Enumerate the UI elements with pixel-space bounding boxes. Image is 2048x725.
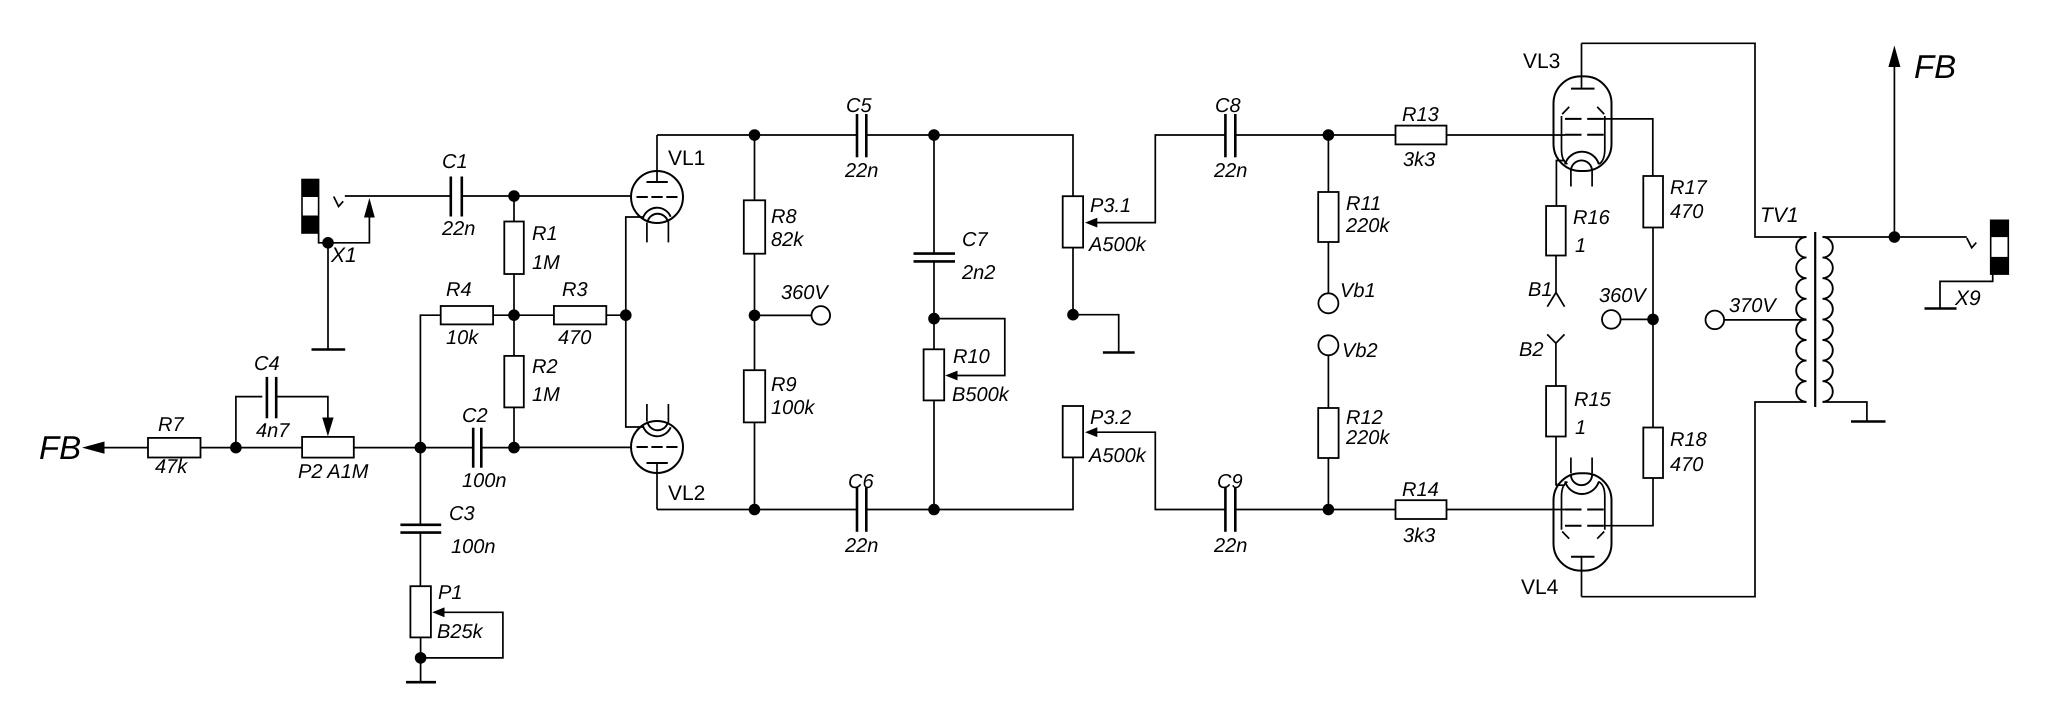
svg-text:VL2: VL2 xyxy=(668,482,705,505)
node 370V xyxy=(1706,295,1807,329)
svg-text:B25k: B25k xyxy=(437,621,484,643)
svg-text:R15: R15 xyxy=(1574,389,1612,411)
svg-text:1: 1 xyxy=(1575,417,1586,439)
capacitor C8 22n xyxy=(1213,95,1247,182)
junction node R1/top xyxy=(508,190,520,202)
capacitor C1 22n xyxy=(441,151,475,240)
svg-text:360V: 360V xyxy=(1599,285,1647,307)
junction dot P1 bottom xyxy=(415,652,427,664)
svg-text:C6: C6 xyxy=(848,471,874,493)
svg-text:R4: R4 xyxy=(446,279,472,301)
svg-text:1M: 1M xyxy=(532,252,560,274)
junction dot R11 top xyxy=(1323,129,1335,141)
resistor R11 220k xyxy=(1318,135,1390,293)
wire bottom rail right xyxy=(867,457,1073,509)
junction dot R12 bottom xyxy=(1323,504,1335,516)
resistor R13 3k3 xyxy=(1396,104,1566,171)
junction dot R10 bottom xyxy=(928,504,940,516)
tetrode VL3 xyxy=(1523,43,1612,206)
resistor R16 1 xyxy=(1546,206,1610,293)
svg-text:1M: 1M xyxy=(532,384,560,406)
svg-text:P1: P1 xyxy=(438,582,462,604)
wire VL3 anode to transformer xyxy=(1582,43,1807,237)
wire bottom rail left xyxy=(657,509,856,511)
capacitor C7 2n2 xyxy=(914,135,996,319)
svg-text:10k: 10k xyxy=(446,327,479,349)
wire VL4 anode to transformer xyxy=(1582,402,1807,597)
svg-text:P3.2: P3.2 xyxy=(1090,407,1131,429)
svg-text:370V: 370V xyxy=(1729,295,1777,317)
svg-text:B500k: B500k xyxy=(952,384,1010,406)
resistor R9 100k xyxy=(744,315,816,509)
svg-text:22n: 22n xyxy=(1213,160,1247,182)
wire C8 to R13 xyxy=(1236,134,1396,136)
resistor R14 3k3 xyxy=(1396,479,1566,547)
svg-text:B1: B1 xyxy=(1528,279,1552,301)
capacitor C5 22n xyxy=(844,95,878,182)
svg-text:R17: R17 xyxy=(1670,177,1708,199)
junction dot P3 center xyxy=(1067,309,1079,321)
svg-text:C9: C9 xyxy=(1217,471,1243,493)
node 360V right xyxy=(1599,285,1653,329)
svg-text:82k: 82k xyxy=(771,229,804,251)
svg-text:100k: 100k xyxy=(771,397,815,419)
svg-text:X1: X1 xyxy=(330,244,357,267)
resistor R2 1M xyxy=(504,315,560,447)
svg-text:360V: 360V xyxy=(781,282,829,304)
svg-text:1: 1 xyxy=(1575,235,1586,257)
triode VL2 xyxy=(626,315,706,509)
svg-text:R3: R3 xyxy=(562,279,588,301)
svg-text:C7: C7 xyxy=(962,229,988,251)
svg-text:Vb1: Vb1 xyxy=(1340,280,1376,302)
resistor R1 1M xyxy=(504,196,560,315)
connector X1 xyxy=(302,180,375,268)
svg-text:P2 A1M: P2 A1M xyxy=(298,461,369,483)
junction dot 360V right xyxy=(1647,314,1659,326)
junction dot cathode node xyxy=(620,309,632,321)
transformer TV1 xyxy=(1760,204,1833,407)
svg-text:TV1: TV1 xyxy=(1760,204,1799,227)
svg-text:470: 470 xyxy=(1670,201,1703,223)
capacitor C2 100n xyxy=(420,405,513,492)
resistor R17 470 xyxy=(1643,176,1707,428)
svg-text:R1: R1 xyxy=(532,223,558,245)
trimmer R10 B500k xyxy=(924,319,1010,510)
wire C2 to VL2 grid xyxy=(514,446,632,448)
svg-text:C2: C2 xyxy=(462,405,488,427)
potentiometer P2 A1M xyxy=(298,437,420,483)
junction dot C7 bottom xyxy=(928,313,940,325)
wire top rail right xyxy=(867,135,1073,196)
svg-text:R8: R8 xyxy=(771,206,797,228)
junction dot R9 bottom xyxy=(749,504,761,516)
svg-text:Vb2: Vb2 xyxy=(1342,340,1378,362)
svg-text:4n7: 4n7 xyxy=(256,420,290,442)
junction dot main node xyxy=(415,442,427,454)
ground P1 xyxy=(406,681,436,684)
svg-text:470: 470 xyxy=(558,327,591,349)
svg-text:R11: R11 xyxy=(1346,193,1381,215)
svg-text:100n: 100n xyxy=(451,536,496,558)
svg-text:22n: 22n xyxy=(441,218,475,240)
svg-text:R2: R2 xyxy=(532,356,558,378)
svg-text:R13: R13 xyxy=(1402,104,1439,126)
label FB left xyxy=(39,429,148,466)
terminal B2 xyxy=(1519,334,1565,386)
potentiometer P3.1 A500k xyxy=(1063,135,1225,315)
wire secondary top xyxy=(1823,236,1967,238)
svg-text:B2: B2 xyxy=(1519,339,1543,361)
svg-text:R9: R9 xyxy=(771,374,797,396)
capacitor C9 22n xyxy=(1213,471,1247,557)
triode VL1 xyxy=(626,135,706,315)
svg-text:R14: R14 xyxy=(1402,479,1439,501)
svg-text:R7: R7 xyxy=(158,414,184,436)
wire input to C1 xyxy=(345,195,450,197)
svg-text:X9: X9 xyxy=(1954,287,1981,310)
resistor R8 82k xyxy=(744,135,804,315)
resistor R7 47k xyxy=(148,414,302,478)
svg-text:C8: C8 xyxy=(1215,95,1241,117)
resistor R18 470 xyxy=(1643,428,1706,479)
resistor R12 220k xyxy=(1318,355,1390,509)
svg-text:22n: 22n xyxy=(1213,535,1247,557)
svg-text:C3: C3 xyxy=(449,503,475,525)
svg-text:3k3: 3k3 xyxy=(1403,149,1435,171)
resistor R4 10k xyxy=(420,279,513,448)
svg-text:A500k: A500k xyxy=(1088,445,1147,467)
svg-text:R12: R12 xyxy=(1346,407,1383,429)
ground P3 xyxy=(1073,315,1135,353)
wire top rail left xyxy=(657,134,856,136)
potentiometer P1 B25k xyxy=(410,582,503,682)
junction dot FB xyxy=(1889,231,1901,243)
svg-text:FB: FB xyxy=(1914,48,1956,85)
node 360V xyxy=(755,282,831,325)
node Vb1 xyxy=(1318,280,1375,313)
connector X9 xyxy=(1925,220,2009,310)
junction dot R8 top xyxy=(749,129,761,141)
wire C9 to R14 xyxy=(1236,509,1396,511)
svg-text:R10: R10 xyxy=(953,346,990,368)
resistor R3 470 xyxy=(514,279,626,349)
node Vb2 xyxy=(1318,335,1377,362)
svg-text:R16: R16 xyxy=(1573,207,1611,229)
svg-text:VL3: VL3 xyxy=(1523,50,1560,73)
capacitor C4 4n7 xyxy=(236,353,334,448)
tetrode VL4 xyxy=(1521,458,1612,600)
svg-text:47k: 47k xyxy=(155,456,188,478)
svg-text:P3.1: P3.1 xyxy=(1090,195,1131,217)
junction dot 360V left xyxy=(749,310,761,322)
junction dot X1 xyxy=(322,237,334,249)
junction dot C7 top xyxy=(928,129,940,141)
terminal B1 xyxy=(1528,279,1565,307)
resistor R15 1 xyxy=(1546,386,1611,485)
svg-text:C4: C4 xyxy=(254,353,280,375)
capacitor C3 100n xyxy=(400,448,495,587)
potentiometer P3.2 A500k xyxy=(1063,406,1225,510)
svg-text:2n2: 2n2 xyxy=(961,262,995,284)
svg-text:22n: 22n xyxy=(844,160,878,182)
svg-text:VL4: VL4 xyxy=(1521,576,1559,599)
svg-text:3k3: 3k3 xyxy=(1403,525,1435,547)
svg-text:FB: FB xyxy=(39,429,81,466)
wire+ground secondary bottom xyxy=(1823,402,1886,422)
svg-text:22n: 22n xyxy=(844,535,878,557)
junction dot C2 right xyxy=(508,442,520,454)
svg-text:470: 470 xyxy=(1670,454,1703,476)
wire C1 to VL1 grid xyxy=(463,195,632,197)
svg-text:C1: C1 xyxy=(442,151,468,173)
arrow FB right xyxy=(1888,46,1956,238)
junction dot C4 left xyxy=(230,442,242,454)
wire VL3 screen to R17 xyxy=(1604,119,1653,176)
svg-text:R18: R18 xyxy=(1670,429,1707,451)
ground X1 xyxy=(312,243,346,350)
svg-text:220k: 220k xyxy=(1345,215,1390,237)
wire VL3 grid R13 already drawn; wire R18 to VL4 screen xyxy=(1604,478,1653,526)
svg-text:220k: 220k xyxy=(1345,427,1390,449)
svg-text:100n: 100n xyxy=(462,470,507,492)
svg-text:VL1: VL1 xyxy=(668,147,705,170)
junction dot R1/R2/R4 xyxy=(508,309,520,321)
svg-text:A500k: A500k xyxy=(1088,234,1147,256)
capacitor C6 22n xyxy=(844,471,878,557)
svg-text:C5: C5 xyxy=(846,95,872,117)
